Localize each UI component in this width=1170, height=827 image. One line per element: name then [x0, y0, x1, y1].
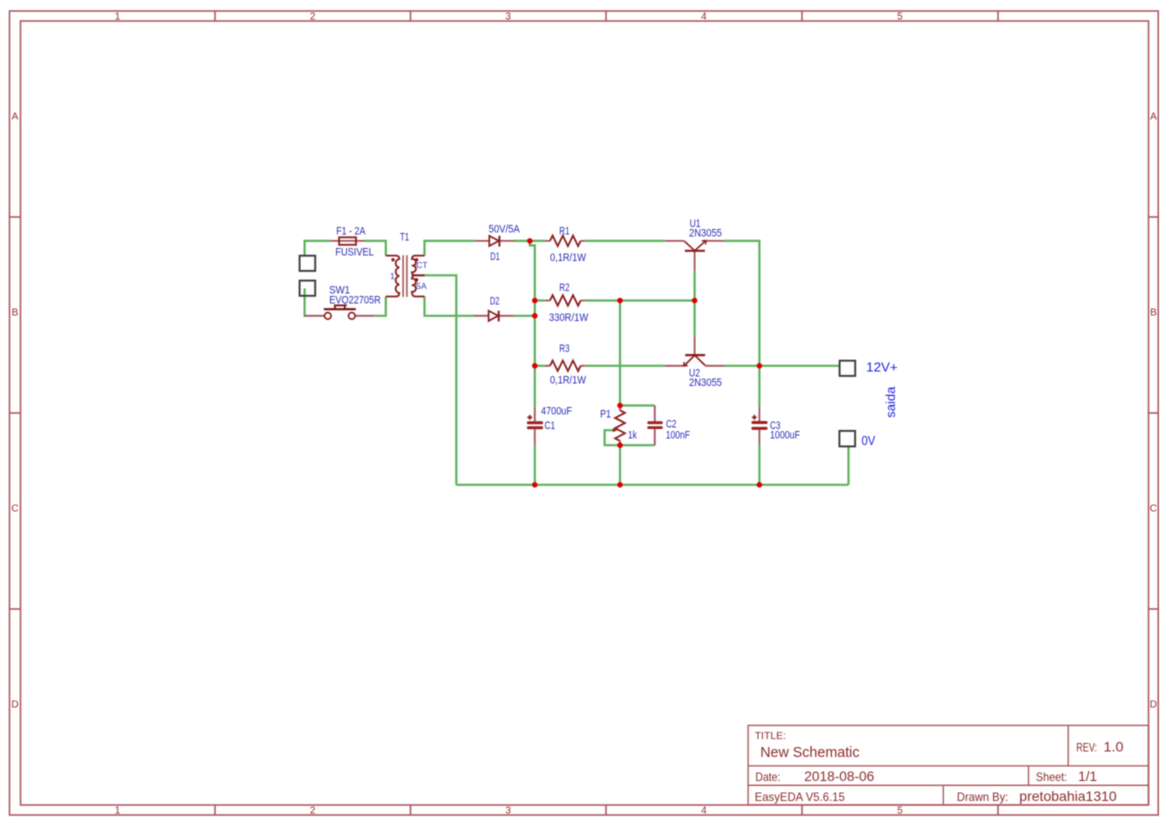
junction node D1-R1	[527, 238, 533, 244]
svg-text:B: B	[1150, 308, 1157, 319]
junction node R3 left	[532, 363, 538, 369]
wire CT tap down to ground rail	[425, 275, 457, 485]
junction node P1 bottom	[617, 442, 623, 448]
svg-text:3: 3	[505, 12, 511, 23]
wire U2 collector to 12V+ port	[724, 365, 839, 367]
wire P1 top to C2	[620, 404, 655, 406]
wire R3 to U2 emitter	[585, 365, 665, 367]
junction node U2 collector	[757, 363, 763, 369]
svg-text:New Schematic: New Schematic	[760, 745, 859, 761]
wire R2 to bases node	[585, 299, 694, 301]
svg-text:2: 2	[310, 806, 316, 817]
wire node to P1 top	[619, 301, 621, 406]
svg-text:1/1: 1/1	[1078, 769, 1097, 784]
wire P1 wiper bracket	[605, 430, 620, 445]
svg-text:Date:: Date:	[755, 770, 780, 784]
wire mains top to fuse	[304, 240, 331, 242]
svg-text:0,1R/1W: 0,1R/1W	[550, 252, 587, 264]
svg-text:TITLE:: TITLE:	[755, 730, 786, 742]
svg-text:D: D	[11, 700, 18, 711]
port 12V+	[840, 359, 898, 376]
wire P1 bottom to rail	[619, 445, 621, 485]
svg-text:D2: D2	[490, 295, 500, 307]
svg-text:C1: C1	[545, 420, 556, 432]
svg-text:0,1R/1W: 0,1R/1W	[550, 375, 587, 387]
resistor R2	[545, 282, 589, 324]
svg-text:R3: R3	[559, 343, 569, 355]
svg-text:1000uF: 1000uF	[770, 429, 800, 441]
svg-text:A: A	[1150, 112, 1157, 123]
svg-text:Sheet:: Sheet:	[1036, 770, 1067, 784]
svg-text:330R/1W: 330R/1W	[549, 312, 589, 324]
svg-text:5A: 5A	[416, 281, 427, 291]
svg-text:C: C	[11, 504, 18, 515]
svg-text:5: 5	[897, 806, 903, 817]
svg-text:saida: saida	[883, 386, 898, 418]
svg-text:Drawn By:: Drawn By:	[957, 790, 1008, 804]
svg-text:2018-08-06: 2018-08-06	[804, 769, 874, 784]
potentiometer P1	[600, 406, 637, 446]
diode D2	[474, 295, 513, 321]
port 0V	[839, 431, 875, 448]
svg-text:3: 3	[505, 806, 511, 817]
svg-text:1k: 1k	[628, 430, 637, 442]
wire D2 to main vertical	[513, 315, 534, 317]
wire fuse to transformer primary	[365, 241, 386, 256]
wire secondary bottom to D2	[425, 297, 475, 316]
wire R1 to U1 collector	[585, 240, 665, 242]
junction node R2 left	[532, 298, 538, 304]
net label saida	[883, 386, 898, 418]
wire secondary top to D1	[425, 241, 475, 256]
transformer T1	[386, 232, 428, 297]
svg-text:R2: R2	[559, 282, 569, 294]
junction node R2-P1	[617, 298, 623, 304]
transistor U2	[665, 336, 724, 389]
switch SW1	[305, 285, 381, 320]
svg-text:T1: T1	[400, 232, 409, 244]
svg-text:1.0: 1.0	[1104, 740, 1124, 755]
wire U1 emitter to right rail	[724, 241, 759, 366]
svg-text:CT: CT	[416, 260, 427, 270]
input port square top	[300, 256, 316, 271]
title block	[748, 725, 1148, 805]
transistor U1	[665, 218, 724, 270]
svg-text:D: D	[1150, 700, 1157, 711]
svg-text:F1 - 2A: F1 - 2A	[336, 226, 366, 238]
wire input port2 down to switch	[304, 288, 306, 317]
wire R2 left	[535, 299, 545, 301]
svg-text:P1: P1	[600, 408, 611, 420]
svg-text:100nF: 100nF	[666, 429, 690, 441]
svg-text:4: 4	[701, 806, 707, 817]
diode D1	[475, 224, 521, 263]
wire 0V port down to rail	[847, 446, 849, 484]
junction node bases	[692, 298, 698, 304]
resistor R1	[545, 226, 587, 264]
wire U1 base to U2 base vertical	[693, 270, 695, 336]
svg-text:1: 1	[115, 12, 121, 23]
svg-text:REV:: REV:	[1076, 741, 1097, 755]
svg-text:2N3055: 2N3055	[689, 228, 722, 240]
svg-text:C: C	[1150, 504, 1157, 515]
resistor R3	[545, 343, 587, 387]
svg-text:12V+: 12V+	[866, 359, 898, 374]
svg-text:5: 5	[897, 12, 903, 23]
svg-text:R1: R1	[559, 226, 569, 238]
svg-text:B: B	[12, 308, 19, 319]
svg-text:EVQ22705R: EVQ22705R	[329, 294, 381, 306]
wire input port1 up	[304, 240, 306, 256]
wire D1 to R1 through node	[514, 240, 545, 242]
fuse F1	[330, 226, 374, 259]
wire right rail to C3 and rail	[758, 366, 760, 485]
input port square bottom	[300, 281, 316, 296]
svg-text:0V: 0V	[862, 433, 876, 448]
svg-text:1: 1	[115, 806, 121, 817]
wire R3 left	[535, 365, 545, 367]
junction node rail C3	[757, 482, 763, 488]
svg-text:4: 4	[701, 12, 707, 23]
junction node D2 right	[532, 313, 538, 319]
junction node rail C1	[532, 482, 538, 488]
svg-text:A: A	[12, 112, 19, 123]
wire bottom ground rail	[456, 484, 848, 486]
junction node rail P1	[617, 482, 623, 488]
svg-text:4700uF: 4700uF	[541, 405, 572, 417]
junction node P1 top	[617, 403, 623, 409]
svg-text:2: 2	[310, 12, 316, 23]
svg-text:D1: D1	[490, 251, 500, 263]
svg-text:2N3055: 2N3055	[689, 377, 722, 389]
capacitor C1	[527, 405, 572, 444]
svg-text:FUSIVEL: FUSIVEL	[335, 247, 373, 259]
svg-text:EasyEDA V5.6.15: EasyEDA V5.6.15	[755, 790, 845, 804]
svg-text:1: 1	[390, 271, 395, 281]
wire C1 bottom to rail	[534, 445, 536, 485]
wire C2 bottom to P1 bottom	[620, 444, 655, 446]
wire jog from D1 node down main vertical	[530, 241, 535, 407]
wire primary bottom to switch	[374, 297, 386, 316]
capacitor C2	[647, 406, 690, 446]
capacitor C3	[751, 406, 800, 444]
svg-text:50V/5A: 50V/5A	[489, 224, 521, 236]
svg-text:pretobahia1310: pretobahia1310	[1019, 788, 1117, 804]
